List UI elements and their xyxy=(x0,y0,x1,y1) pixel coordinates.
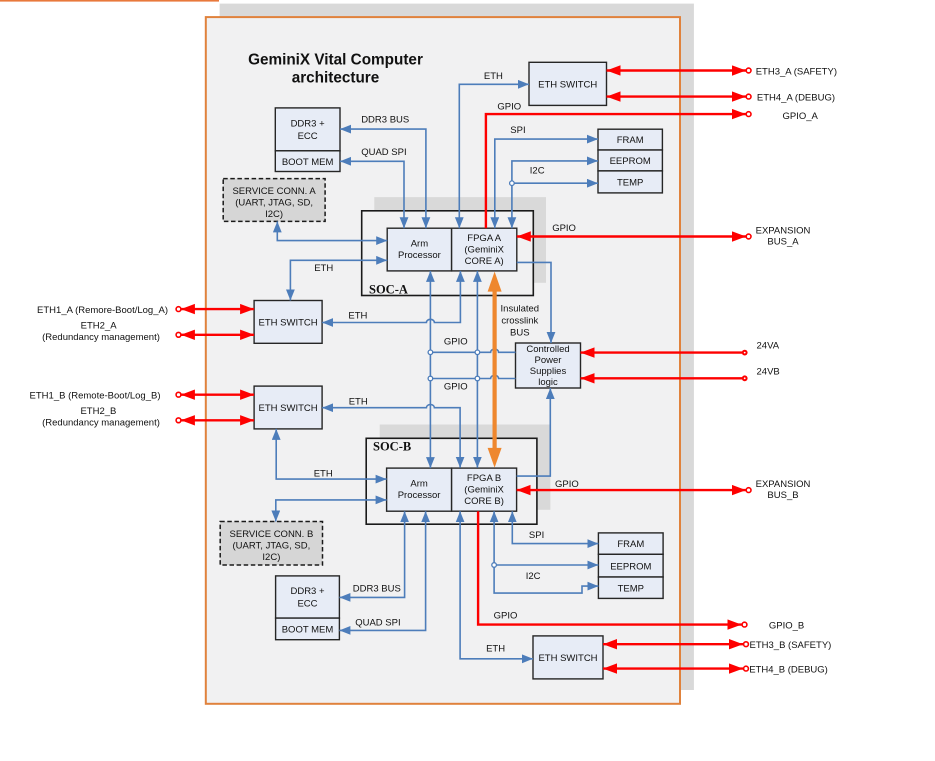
wire I2C A branch to TEMP xyxy=(512,182,598,184)
svg-text:CORE B): CORE B) xyxy=(464,496,504,507)
wire GPIO vertical FPGA A to FPGA B xyxy=(476,271,478,468)
SERVICE CONN. B xyxy=(220,522,322,566)
svg-text:CORE A): CORE A) xyxy=(465,256,504,267)
svg-text:(Redundancy management): (Redundancy management) xyxy=(42,332,160,343)
svg-text:Insulated: Insulated xyxy=(501,304,540,315)
junction GPIO 2b xyxy=(475,376,480,381)
Arm Processor B xyxy=(387,468,452,511)
svg-text:GPIO: GPIO xyxy=(555,479,579,490)
FRAM B xyxy=(598,533,663,554)
svg-text:Processor: Processor xyxy=(398,490,441,501)
svg-text:ETH SWITCH: ETH SWITCH xyxy=(538,653,597,664)
wire I2C B branch to TEMP xyxy=(494,565,598,593)
wire red 24VB xyxy=(581,366,780,381)
svg-text:SOC-B: SOC-B xyxy=(373,440,411,454)
svg-text:SPI: SPI xyxy=(529,530,544,541)
svg-text:DDR3 +: DDR3 + xyxy=(290,586,325,597)
wire service conn B to Arm B xyxy=(276,500,387,522)
svg-text:GPIO: GPIO xyxy=(444,382,468,393)
junction GPIO 1a xyxy=(428,350,433,355)
wire ETH bottom switch xyxy=(460,511,533,659)
svg-text:Power: Power xyxy=(535,355,562,366)
svg-text:ETH3_A (SAFETY): ETH3_A (SAFETY) xyxy=(756,66,837,77)
svg-text:architecture: architecture xyxy=(292,70,380,87)
DDR3 + ECC B xyxy=(276,576,340,618)
wire I2C A to EEPROM xyxy=(512,161,598,228)
svg-text:I2C: I2C xyxy=(530,166,545,177)
svg-text:ETH: ETH xyxy=(349,396,368,407)
wire ETH Arm A to switch A xyxy=(290,260,387,300)
ETH SWITCH A left xyxy=(254,301,322,344)
wire ETH switch A to FPGA A xyxy=(322,271,460,323)
wire red ETH3_A xyxy=(607,66,838,77)
svg-text:ETH: ETH xyxy=(484,71,503,82)
SOC-A xyxy=(362,211,534,297)
svg-text:BUS_A: BUS_A xyxy=(767,237,799,248)
svg-text:SPI: SPI xyxy=(510,125,525,136)
TEMP B xyxy=(598,577,663,598)
svg-text:(GeminiX: (GeminiX xyxy=(464,484,504,495)
top orange strip xyxy=(0,0,219,2)
Arm Processor A xyxy=(387,228,451,271)
wire red EXPANSION BUS_B xyxy=(517,479,811,501)
wire GPIO line 2 to CPS xyxy=(430,375,515,392)
wire service conn A to Arm A xyxy=(277,221,387,240)
wire SPI A xyxy=(495,125,598,228)
svg-text:ETH2_B: ETH2_B xyxy=(80,406,116,417)
svg-text:(UART, JTAG, SD,: (UART, JTAG, SD, xyxy=(233,541,311,552)
DDR3 + ECC A xyxy=(275,108,340,151)
wire red ETH1_B xyxy=(30,391,255,402)
svg-text:GPIO: GPIO xyxy=(494,611,518,622)
svg-text:FRAM: FRAM xyxy=(617,135,644,146)
svg-text:ETH4_B (DEBUG): ETH4_B (DEBUG) xyxy=(749,664,828,675)
svg-text:GPIO: GPIO xyxy=(444,337,468,348)
svg-text:(Redundancy management): (Redundancy management) xyxy=(42,418,160,429)
svg-text:BUS_B: BUS_B xyxy=(767,490,798,501)
svg-text:(GeminiX: (GeminiX xyxy=(464,244,504,255)
svg-text:ETH2_A: ETH2_A xyxy=(81,321,118,332)
wire ETH switch B to FPGA B xyxy=(322,396,460,467)
svg-text:ETH SWITCH: ETH SWITCH xyxy=(259,318,318,329)
wire red GPIO_B xyxy=(478,511,804,631)
wire red ETH4_A xyxy=(607,92,836,103)
FPGA A xyxy=(452,228,517,271)
svg-text:ETH: ETH xyxy=(314,469,333,480)
svg-text:Supplies: Supplies xyxy=(530,366,567,377)
SOC-B xyxy=(366,438,537,524)
wire ETH top switch xyxy=(459,71,529,228)
svg-text:BOOT MEM: BOOT MEM xyxy=(282,157,334,168)
wire red EXPANSION BUS_A xyxy=(517,226,811,248)
ETH SWITCH bottom xyxy=(533,636,603,679)
svg-text:(UART, JTAG, SD,: (UART, JTAG, SD, xyxy=(235,197,313,208)
wire SPI B xyxy=(512,511,598,543)
wire red ETH2_A xyxy=(42,321,254,344)
junction GPIO 1b xyxy=(475,350,480,355)
wire QUAD SPI A xyxy=(340,147,407,228)
svg-text:EXPANSION: EXPANSION xyxy=(756,479,811,490)
svg-text:24VA: 24VA xyxy=(757,341,780,352)
ETH SWITCH B left xyxy=(254,386,322,429)
SOC-B shadow xyxy=(380,425,551,510)
svg-text:GPIO_B: GPIO_B xyxy=(769,621,804,632)
svg-text:ECC: ECC xyxy=(298,131,318,142)
TEMP A xyxy=(598,171,662,193)
svg-text:EXPANSION: EXPANSION xyxy=(756,226,811,237)
wire red ETH4_B xyxy=(603,664,828,675)
ETH SWITCH top xyxy=(529,62,607,105)
label crosslink BUS xyxy=(501,304,540,339)
svg-text:ETH4_A (DEBUG): ETH4_A (DEBUG) xyxy=(757,92,835,103)
wire DDR3 BUS B xyxy=(339,511,404,597)
svg-text:DDR3 +: DDR3 + xyxy=(291,119,326,130)
FRAM A xyxy=(598,129,662,150)
wire red ETH2_B xyxy=(42,406,254,429)
svg-text:TEMP: TEMP xyxy=(618,583,644,594)
svg-text:SOC-A: SOC-A xyxy=(369,282,408,296)
svg-text:Arm: Arm xyxy=(411,239,429,250)
svg-text:BOOT MEM: BOOT MEM xyxy=(282,624,334,635)
wire DDR3 BUS A xyxy=(340,115,426,229)
junction I2C B xyxy=(492,563,497,568)
svg-text:ETH3_B (SAFETY): ETH3_B (SAFETY) xyxy=(750,640,832,651)
svg-text:ECC: ECC xyxy=(297,599,317,610)
svg-text:24VB: 24VB xyxy=(757,366,780,377)
svg-text:DDR3 BUS: DDR3 BUS xyxy=(361,115,409,126)
wire red ETH1_A xyxy=(37,305,254,316)
svg-text:FPGA A: FPGA A xyxy=(467,233,501,244)
svg-text:ETH: ETH xyxy=(314,263,333,274)
svg-text:GPIO: GPIO xyxy=(497,102,521,113)
svg-text:DDR3 BUS: DDR3 BUS xyxy=(353,584,401,595)
svg-text:ETH: ETH xyxy=(486,644,505,655)
svg-text:FPGA B: FPGA B xyxy=(467,473,501,484)
svg-text:Processor: Processor xyxy=(398,250,441,261)
junction GPIO 2a xyxy=(428,376,433,381)
wire QUAD SPI B xyxy=(339,511,425,630)
svg-text:QUAD SPI: QUAD SPI xyxy=(355,618,400,629)
wire I2C B to EEPROM xyxy=(494,511,598,582)
svg-text:crosslink: crosslink xyxy=(501,316,538,327)
svg-text:Arm: Arm xyxy=(410,479,428,490)
svg-text:logic: logic xyxy=(538,377,558,388)
svg-text:ETH: ETH xyxy=(348,311,367,322)
svg-text:I2C): I2C) xyxy=(265,209,283,220)
wire red GPIO_A xyxy=(486,102,819,229)
svg-text:ETH1_A (Remore-Boot/Log_A): ETH1_A (Remore-Boot/Log_A) xyxy=(37,305,168,316)
svg-text:EEPROM: EEPROM xyxy=(610,562,651,573)
main panel xyxy=(206,17,680,704)
wire red 24VA xyxy=(581,341,780,356)
svg-text:ETH1_B (Remote-Boot/Log_B): ETH1_B (Remote-Boot/Log_B) xyxy=(30,391,161,402)
svg-text:Controlled: Controlled xyxy=(526,344,569,355)
SOC-A shadow xyxy=(374,197,546,283)
junction I2C A xyxy=(510,181,515,186)
Controlled Power Supplies logic U-CPS xyxy=(516,343,581,388)
svg-text:QUAD SPI: QUAD SPI xyxy=(361,147,406,158)
wire GPIO line 1 to CPS xyxy=(430,337,515,353)
EEPROM B xyxy=(598,554,663,577)
svg-text:I2C: I2C xyxy=(526,571,541,582)
svg-text:GeminiX Vital Computer: GeminiX Vital Computer xyxy=(248,52,423,69)
svg-text:FRAM: FRAM xyxy=(617,539,644,550)
svg-text:ETH SWITCH: ETH SWITCH xyxy=(259,403,318,414)
wire FPGA B to CPS xyxy=(517,388,579,490)
FPGA B xyxy=(452,468,517,511)
svg-text:I2C): I2C) xyxy=(262,552,280,563)
svg-text:EEPROM: EEPROM xyxy=(610,156,651,167)
svg-text:TEMP: TEMP xyxy=(617,178,643,189)
svg-text:ETH SWITCH: ETH SWITCH xyxy=(538,79,597,90)
EEPROM A xyxy=(598,150,662,171)
panel drop shadow xyxy=(220,4,694,690)
wire red ETH3_B xyxy=(603,640,831,651)
svg-text:SERVICE CONN. B: SERVICE CONN. B xyxy=(230,529,314,540)
svg-text:GPIO_A: GPIO_A xyxy=(783,111,819,122)
crosslink arrow xyxy=(488,272,502,468)
svg-text:SERVICE CONN. A: SERVICE CONN. A xyxy=(232,186,316,197)
wire FPGA A to CPS xyxy=(517,223,576,343)
svg-text:BUS: BUS xyxy=(510,328,530,339)
svg-text:GPIO: GPIO xyxy=(552,223,576,234)
BOOT MEM A xyxy=(275,151,340,172)
BOOT MEM B xyxy=(276,618,340,640)
wire GPIO vertical Arm A to Arm B xyxy=(429,271,431,468)
SERVICE CONN. A xyxy=(223,179,325,222)
wire ETH Arm B to switch B xyxy=(276,429,386,480)
